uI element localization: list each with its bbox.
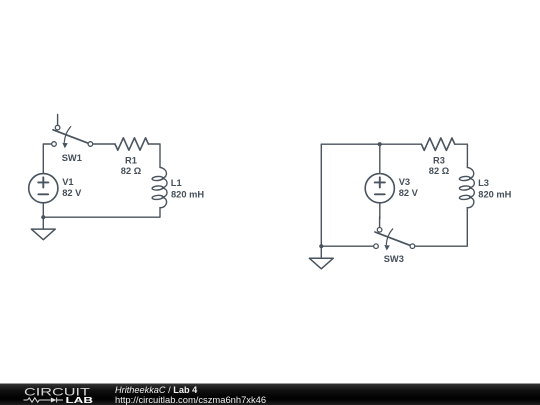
ground <box>31 217 55 240</box>
wire <box>43 208 160 218</box>
svg-text:82 V: 82 V <box>62 188 82 198</box>
junction <box>319 244 323 248</box>
svg-text:820 mH: 820 mH <box>478 189 511 199</box>
svg-text:L1: L1 <box>171 178 182 188</box>
wire <box>42 203 44 217</box>
resistor R1 <box>115 138 148 150</box>
wire <box>415 208 468 247</box>
svg-text:82 Ω: 82 Ω <box>121 166 142 176</box>
wire <box>379 144 381 174</box>
svg-text:V1: V1 <box>62 177 73 187</box>
wire <box>320 144 322 246</box>
inductor L1 <box>152 167 167 207</box>
wire <box>455 144 468 167</box>
svg-text:LAB: LAB <box>66 395 94 405</box>
svg-text:82 Ω: 82 Ω <box>429 166 450 176</box>
wire <box>321 245 373 247</box>
switch SW1 <box>52 115 93 149</box>
switch SW3 <box>374 217 415 251</box>
svg-text:820 mH: 820 mH <box>171 189 204 199</box>
svg-text:V3: V3 <box>399 177 410 187</box>
junction <box>41 215 45 219</box>
svg-text:SW3: SW3 <box>384 254 404 264</box>
wire <box>379 203 381 219</box>
footer bar <box>0 384 540 405</box>
svg-text:L3: L3 <box>478 178 489 188</box>
CircuitLab logo schematic line <box>24 398 64 403</box>
resistor R3 <box>421 138 454 150</box>
voltage source V1 <box>29 174 58 203</box>
svg-text:http://circuitlab.com/cszma6nh: http://circuitlab.com/cszma6nh7xk46 <box>115 394 266 405</box>
svg-text:R3: R3 <box>433 156 445 166</box>
junction <box>378 142 382 146</box>
voltage source V3 <box>365 174 394 203</box>
svg-text:SW1: SW1 <box>62 153 82 163</box>
svg-text:82 V: 82 V <box>399 188 419 198</box>
wire <box>148 144 160 167</box>
inductor L3 <box>459 167 474 207</box>
wire <box>93 143 115 145</box>
ground <box>309 246 333 268</box>
wire <box>43 144 51 174</box>
svg-text:R1: R1 <box>125 156 137 166</box>
wire <box>321 143 421 145</box>
